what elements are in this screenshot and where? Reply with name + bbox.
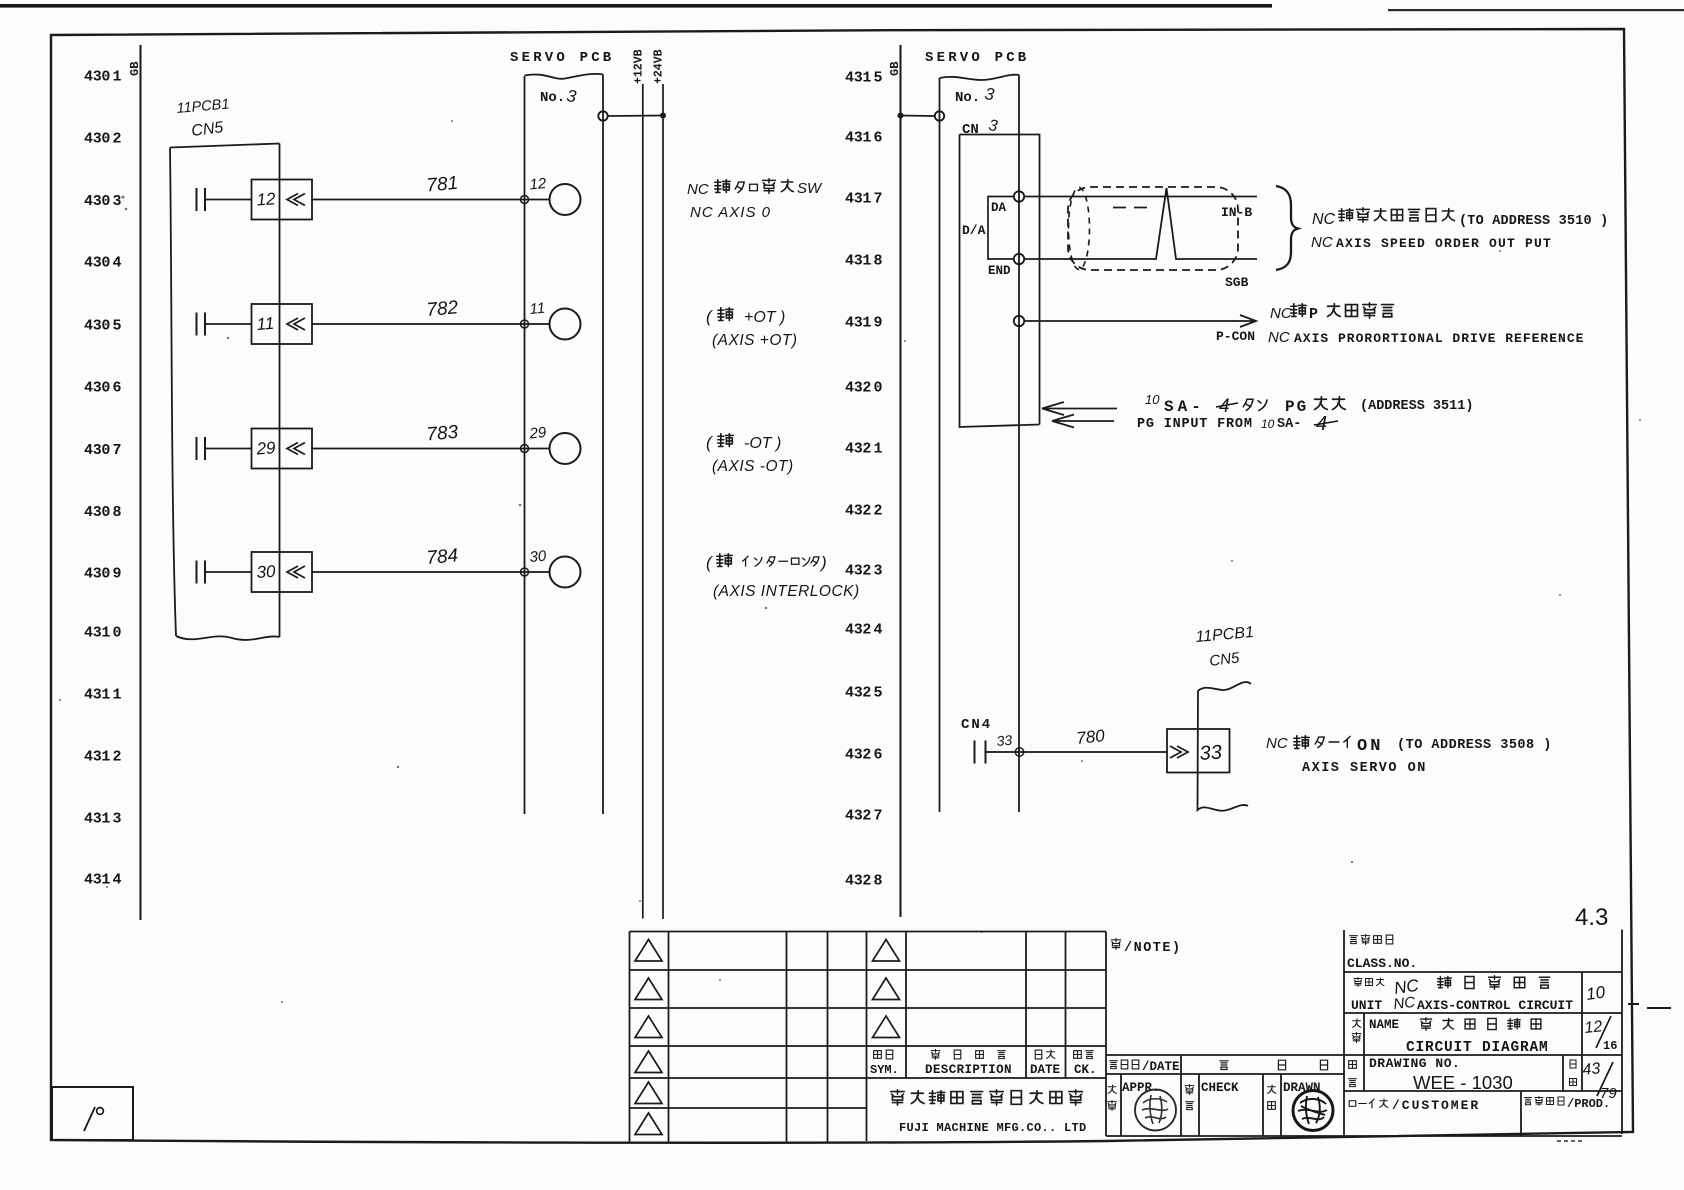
- terminal box pin 11: [252, 304, 313, 344]
- svg-text:(AXIS -OT): (AXIS -OT): [712, 458, 794, 475]
- svg-text:D/A: D/A: [962, 223, 986, 238]
- svg-text:0: 0: [874, 380, 883, 397]
- svg-text:33: 33: [996, 732, 1013, 749]
- svg-text:NC: NC: [1311, 234, 1333, 251]
- svg-text:SERVO PCB: SERVO PCB: [510, 50, 614, 66]
- svg-text:4: 4: [113, 872, 122, 889]
- date approval block lines: [1106, 1055, 1622, 1136]
- svg-text:7: 7: [874, 808, 883, 825]
- svg-text:CLASS.NO.: CLASS.NO.: [1347, 956, 1417, 971]
- svg-text:12: 12: [256, 189, 277, 209]
- svg-text:8: 8: [874, 253, 883, 270]
- contact symbol CN4 pin 33: [975, 741, 986, 764]
- svg-text:CIRCUIT DIAGRAM: CIRCUIT DIAGRAM: [1406, 1040, 1549, 1056]
- title block outline: [1344, 930, 1622, 1137]
- svg-text:430: 430: [84, 318, 110, 335]
- svg-text:NC: NC: [1312, 211, 1336, 228]
- header CK (kanji): [1074, 1051, 1082, 1059]
- svg-text:431: 431: [845, 253, 871, 270]
- svg-text:(: (: [706, 553, 714, 572]
- junction dot on +24VB rail: [660, 113, 666, 119]
- contact symbol CN5 pin 12: [197, 188, 206, 211]
- svg-text:3: 3: [874, 563, 883, 580]
- svg-text:CK.: CK.: [1074, 1063, 1097, 1077]
- svg-text:5: 5: [113, 318, 122, 335]
- svg-text:SA-: SA-: [1277, 417, 1301, 432]
- right vertical bus GB: [900, 45, 902, 917]
- svg-text:APPR.: APPR.: [1122, 1081, 1160, 1095]
- svg-text:1: 1: [113, 69, 122, 86]
- svg-text:9: 9: [874, 315, 883, 332]
- svg-text:5: 5: [874, 70, 883, 87]
- junction pin 30 on SERVO PCB edge: [521, 568, 529, 576]
- wire 783: [312, 448, 550, 450]
- wire END to SGB with pulse spike: [1024, 188, 1257, 259]
- svg-text:33: 33: [1199, 741, 1223, 764]
- svg-text:29: 29: [255, 438, 277, 458]
- cable CN5 line with torn ends: [1198, 682, 1252, 811]
- double chevron arrow: [287, 194, 305, 206]
- wire contact to terminal box pin 11: [205, 323, 252, 325]
- svg-text:SERVO PCB: SERVO PCB: [925, 50, 1029, 66]
- svg-text:432: 432: [845, 380, 871, 397]
- svg-text:NC: NC: [1266, 735, 1288, 752]
- svg-text:IN-B: IN-B: [1221, 205, 1252, 220]
- SERVO PCB (right) outline: [940, 75, 1020, 812]
- contact symbol CN5 pin 29: [197, 437, 206, 460]
- svg-text:432: 432: [845, 441, 871, 458]
- svg-text:12: 12: [1584, 1018, 1604, 1037]
- svg-text:CN5: CN5: [1208, 649, 1241, 670]
- svg-text:AXIS SERVO ON: AXIS SERVO ON: [1302, 761, 1427, 776]
- +24VB power rail: [662, 84, 664, 919]
- unit title axis control circuit (kanji): [1438, 977, 1452, 988]
- svg-text:2: 2: [874, 503, 883, 520]
- contact symbol CN5 pin 30: [197, 561, 206, 584]
- svg-text:(: (: [706, 433, 714, 452]
- svg-text:No.: No.: [955, 90, 980, 106]
- svg-text:NC: NC: [1393, 994, 1416, 1013]
- scan speckles: [59, 120, 1641, 1003]
- svg-text:CN5: CN5: [190, 119, 224, 140]
- svg-text:430: 430: [84, 255, 110, 272]
- svg-text:7: 7: [113, 442, 122, 459]
- svg-text:UNIT: UNIT: [1351, 998, 1382, 1013]
- terminal box pin 33: [1167, 729, 1230, 773]
- svg-text:30: 30: [529, 548, 548, 566]
- label page no (kanji, vertical): [1570, 1060, 1576, 1068]
- wire contact to terminal box pin 12: [205, 199, 252, 201]
- header month (kanji): [1278, 1060, 1285, 1070]
- svg-text:PG INPUT FROM: PG INPUT FROM: [1137, 417, 1253, 432]
- svg-text:PG: PG: [1285, 398, 1308, 416]
- svg-text:5: 5: [874, 685, 883, 702]
- svg-text:30: 30: [256, 562, 277, 582]
- svg-text:SYM.: SYM.: [870, 1063, 899, 1077]
- revision mark triangles: [635, 940, 900, 1135]
- header year (kanji): [1220, 1061, 1228, 1070]
- svg-text:1: 1: [874, 441, 883, 458]
- left vertical bus GB: [140, 45, 142, 920]
- drawn stamp: [1293, 1091, 1333, 1131]
- PG input arrow upper: [1042, 402, 1117, 415]
- svg-text:10: 10: [1145, 392, 1160, 407]
- note label: [1111, 939, 1121, 950]
- svg-text:784: 784: [426, 545, 459, 569]
- svg-text:(ADDRESS 3511): (ADDRESS 3511): [1360, 399, 1473, 414]
- svg-text:9: 9: [113, 566, 122, 583]
- svg-text:8: 8: [113, 504, 122, 521]
- svg-text:783: 783: [426, 422, 460, 446]
- svg-text:-OT ): -OT ): [744, 435, 781, 452]
- dash marks beside title block: [1628, 1004, 1671, 1008]
- svg-text:DATE: DATE: [1030, 1063, 1060, 1077]
- +12VB power rail: [642, 84, 644, 919]
- svg-text:ON: ON: [1357, 737, 1383, 756]
- svg-text:431: 431: [84, 749, 110, 766]
- svg-text:WEE - 1030: WEE - 1030: [1413, 1072, 1513, 1093]
- wire contact to terminal box pin 30: [205, 571, 252, 573]
- svg-text:+12VB: +12VB: [633, 49, 646, 84]
- header SYM (kanji): [874, 1051, 882, 1059]
- svg-text:/CUSTOMER: /CUSTOMER: [1392, 1098, 1480, 1113]
- terminal box pin 29: [252, 429, 313, 469]
- wire right bus to SERVO PCB: [901, 115, 935, 118]
- terminal circle pin 12: [550, 184, 581, 215]
- double chevron arrow: [287, 318, 305, 330]
- wire 784: [312, 571, 550, 573]
- svg-text:782: 782: [426, 297, 460, 321]
- svg-text:DESCRIPTION: DESCRIPTION: [925, 1063, 1012, 1077]
- revision table left outline: [630, 932, 867, 1142]
- svg-text:P-CON: P-CON: [1216, 329, 1255, 344]
- double chevron arrow into box 33: [1170, 746, 1188, 758]
- svg-text:SW: SW: [797, 180, 823, 197]
- svg-text:781: 781: [426, 173, 459, 197]
- label customer (kana)/CUSTOMER: [1349, 1101, 1356, 1107]
- junction pin 29 on SERVO PCB edge: [521, 445, 529, 453]
- wire P-CON output with arrow: [1024, 315, 1256, 327]
- svg-text:430: 430: [84, 442, 110, 459]
- label unit name (kanji): [1354, 978, 1362, 987]
- svg-text:0: 0: [113, 625, 122, 642]
- label prod no (kanji)/PROD: [1525, 1098, 1532, 1105]
- svg-text:3: 3: [113, 811, 122, 828]
- revision table right outline: [867, 932, 1107, 1137]
- svg-text:11PCB1: 11PCB1: [1195, 624, 1255, 646]
- junction circle on right SERVO PCB left edge: [935, 111, 944, 120]
- svg-text:11: 11: [529, 300, 546, 318]
- svg-text:431: 431: [845, 130, 871, 147]
- svg-text:431: 431: [84, 625, 110, 642]
- svg-text:CN4: CN4: [961, 717, 992, 733]
- svg-text:431: 431: [845, 191, 871, 208]
- svg-text:SGB: SGB: [1225, 275, 1249, 290]
- terminal circle END: [1014, 254, 1024, 264]
- svg-text:AXIS SPEED ORDER OUT PUT: AXIS SPEED ORDER OUT PUT: [1336, 236, 1552, 251]
- svg-text:SA-: SA-: [1164, 398, 1205, 416]
- svg-text:(: (: [706, 307, 714, 326]
- svg-text:4.3: 4.3: [1575, 904, 1608, 931]
- svg-text:432: 432: [845, 563, 871, 580]
- svg-text:2: 2: [113, 749, 122, 766]
- label class no (kanji): [1350, 936, 1358, 944]
- approval stamp: [1135, 1090, 1176, 1131]
- svg-text:4: 4: [113, 255, 122, 272]
- svg-text:CHECK: CHECK: [1201, 1081, 1239, 1095]
- svg-text:29: 29: [528, 424, 548, 443]
- PG input arrow lower: [1052, 415, 1114, 428]
- terminal box pin 12: [252, 180, 313, 220]
- svg-text:/DATE: /DATE: [1142, 1060, 1180, 1074]
- label APPR: [1108, 1085, 1116, 1093]
- header DESCRIPTION (kanji): [931, 1050, 940, 1060]
- double chevron arrow: [287, 443, 305, 455]
- svg-text:432: 432: [845, 685, 871, 702]
- wire DA to IN-B: [1024, 196, 1257, 198]
- connector CN3 outline: [960, 135, 1040, 428]
- shield dashed ellipse: [1069, 188, 1090, 270]
- small ink marks under title block: [1557, 1140, 1582, 1142]
- sheet number 10 handwritten: [84, 1107, 95, 1131]
- connector block 11PCB1 CN5 outline: [170, 144, 280, 640]
- D/A converter box: [988, 197, 1014, 260]
- svg-text:NC: NC: [687, 181, 709, 198]
- svg-text:432: 432: [845, 808, 871, 825]
- svg-text:AXIS PRORORTIONAL DRIVE REFERE: AXIS PRORORTIONAL DRIVE REFERENCE: [1294, 331, 1584, 346]
- junction dot on right bus: [898, 113, 904, 119]
- svg-text:10: 10: [1261, 417, 1275, 431]
- svg-text:430: 430: [84, 380, 110, 397]
- svg-text:FUJI MACHINE MFG.CO.. LTD: FUJI MACHINE MFG.CO.. LTD: [899, 1121, 1087, 1135]
- svg-text:432: 432: [845, 622, 871, 639]
- wire 780: [986, 751, 1168, 753]
- junction circle on left SERVO PCB right edge: [598, 111, 607, 120]
- svg-text:3: 3: [565, 86, 578, 106]
- svg-text:4: 4: [874, 622, 883, 639]
- svg-text:P: P: [1309, 306, 1318, 323]
- terminal circle DA: [1014, 191, 1024, 201]
- svg-text:): ): [819, 553, 827, 572]
- svg-text:432: 432: [845, 503, 871, 520]
- label CHECK: [1185, 1085, 1194, 1095]
- svg-text:431: 431: [845, 70, 871, 87]
- contact symbol CN5 pin 11: [197, 313, 206, 336]
- svg-text:(AXIS +OT): (AXIS +OT): [712, 332, 798, 349]
- terminal circle pin 11: [550, 309, 581, 340]
- svg-text:6: 6: [113, 380, 122, 397]
- svg-text:AXIS-CONTROL CIRCUIT: AXIS-CONTROL CIRCUIT: [1417, 998, 1573, 1013]
- label name (kanji, vertical): [1353, 1019, 1361, 1027]
- svg-text:430: 430: [84, 504, 110, 521]
- svg-text:NC AXIS 0: NC AXIS 0: [690, 204, 771, 221]
- svg-text:43: 43: [1582, 1060, 1602, 1079]
- svg-text:(AXIS INTERLOCK): (AXIS INTERLOCK): [713, 583, 860, 600]
- svg-text:1: 1: [113, 687, 122, 704]
- terminal circle pin 30: [550, 557, 581, 588]
- sheet number box: [52, 1087, 133, 1140]
- junction pin 11 on SERVO PCB edge: [521, 320, 529, 328]
- wire SERVO PCB to +24VB rail: [608, 115, 663, 118]
- svg-text:NC: NC: [1268, 329, 1290, 346]
- svg-text:16: 16: [1603, 1039, 1617, 1053]
- svg-text:6: 6: [874, 747, 883, 764]
- svg-text:No.: No.: [540, 90, 565, 106]
- svg-text:432: 432: [845, 747, 871, 764]
- SERVO PCB (left) outline: [525, 74, 604, 814]
- svg-text:3: 3: [983, 84, 996, 104]
- svg-text:END: END: [988, 264, 1011, 278]
- svg-text:+24VB: +24VB: [653, 49, 666, 84]
- svg-text:11PCB1: 11PCB1: [176, 96, 230, 117]
- svg-text:CN: CN: [962, 122, 979, 138]
- svg-text:431: 431: [84, 687, 110, 704]
- terminal circle P-CON: [1014, 316, 1024, 326]
- svg-text:8: 8: [874, 873, 883, 890]
- svg-text:431: 431: [84, 872, 110, 889]
- svg-text:430: 430: [84, 566, 110, 583]
- svg-text:430: 430: [84, 193, 110, 210]
- label DRAWN: [1268, 1085, 1276, 1093]
- svg-text:10: 10: [1585, 982, 1607, 1004]
- svg-text:2: 2: [113, 131, 122, 148]
- svg-text:6: 6: [874, 130, 883, 147]
- wire 782: [312, 323, 550, 325]
- shielded cable dashed outline: [1068, 187, 1238, 270]
- svg-text:(TO ADDRESS 3508 ): (TO ADDRESS 3508 ): [1397, 738, 1552, 753]
- double chevron arrow: [287, 566, 305, 578]
- svg-text:/NOTE): /NOTE): [1124, 941, 1182, 956]
- svg-text:780: 780: [1075, 726, 1106, 748]
- svg-text:7: 7: [874, 191, 883, 208]
- svg-text:+OT ): +OT ): [744, 309, 785, 326]
- scan artifact top bar: [0, 4, 1272, 8]
- svg-text:3: 3: [987, 117, 998, 135]
- svg-text:11: 11: [256, 314, 275, 334]
- header DATE (kanji): [1035, 1050, 1042, 1059]
- wire 781: [312, 199, 550, 201]
- title electric circuit diagram (kanji): [1420, 1018, 1431, 1031]
- header date (kanji)/DATE: [1110, 1061, 1118, 1069]
- brace for speed order output: [1276, 186, 1298, 270]
- company name Fuji Machine (kanji): [891, 1090, 905, 1105]
- svg-text:DRAWING NO.: DRAWING NO.: [1369, 1056, 1460, 1071]
- svg-text:NAME: NAME: [1369, 1018, 1399, 1032]
- svg-text:DA: DA: [991, 201, 1007, 215]
- svg-text:12: 12: [529, 175, 548, 193]
- label drawing no (kanji, vertical): [1349, 1061, 1357, 1069]
- svg-text:430: 430: [84, 69, 110, 86]
- svg-text:(TO ADDRESS 3510 ): (TO ADDRESS 3510 ): [1459, 214, 1608, 229]
- svg-text:431: 431: [84, 811, 110, 828]
- header day (kanji): [1320, 1060, 1327, 1070]
- polarity dashes: [1113, 207, 1147, 209]
- svg-text:NC: NC: [1270, 305, 1292, 322]
- svg-text:430: 430: [84, 131, 110, 148]
- terminal circle pin 29: [550, 433, 581, 464]
- svg-text:3: 3: [113, 193, 122, 210]
- svg-text:432: 432: [845, 873, 871, 890]
- wire contact to terminal box pin 29: [205, 448, 252, 450]
- junction circle pin 33: [1015, 748, 1023, 756]
- junction pin 12 on SERVO PCB edge: [521, 196, 529, 204]
- svg-text:/PROD.: /PROD.: [1567, 1097, 1610, 1111]
- svg-text:431: 431: [845, 315, 871, 332]
- terminal box pin 30: [252, 552, 313, 592]
